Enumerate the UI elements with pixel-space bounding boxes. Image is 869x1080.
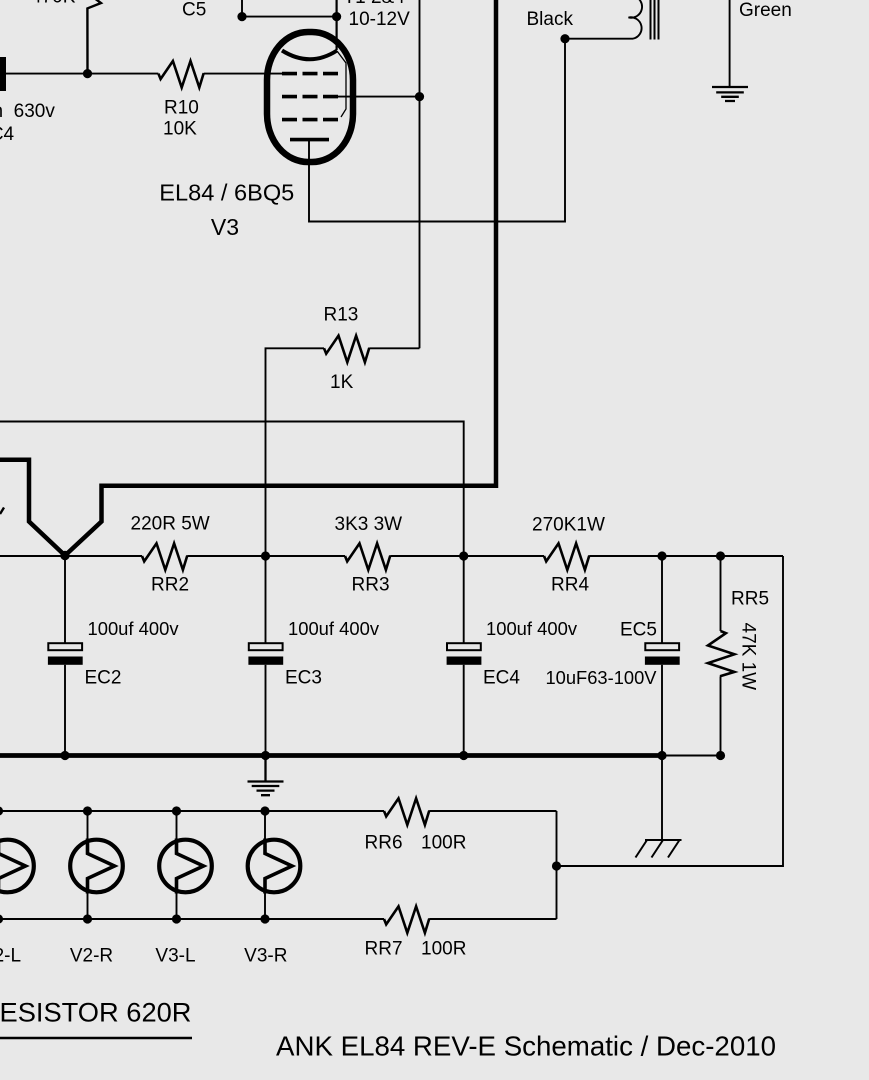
wire: B+ rail segment 4 [589,555,783,557]
svg-text:V3-R: V3-R [244,946,287,967]
svg-text:100uf 400v: 100uf 400v [288,618,380,639]
svg-text:100uf 400v: 100uf 400v [88,618,180,639]
svg-text:47K 1W: 47K 1W [738,623,759,691]
resistor R10 [158,61,203,88]
junction node C4/470K [83,69,92,78]
junction heater dots top [0,806,270,815]
wire: RR7 to output node [429,918,556,920]
label fragment at left edge [0,508,4,515]
svg-text:V3: V3 [211,214,239,240]
svg-text:RR7: RR7 [365,938,403,959]
svg-text:C4: C4 [0,124,15,145]
resistor R13 [324,336,369,363]
resistor RR7 [384,906,429,933]
junction RR5 top node [716,551,725,560]
junction RR5 ground [716,751,725,760]
svg-text:n 630v: n 630v [0,101,55,122]
svg-text:EC2: EC2 [85,668,122,689]
tube V3 internal lead [337,51,346,117]
ground rail (thick) [0,753,662,758]
thick B+ bus [65,0,496,556]
svg-text:470K: 470K [31,0,76,8]
tube V3 grid g1 [282,72,338,76]
svg-text:ESISTOR 620R: ESISTOR 620R [0,998,192,1028]
junction EC2 ground [60,751,69,760]
junction heater dots bottom [0,914,270,923]
thick feed from left (partial) [0,460,65,556]
svg-text:RR4: RR4 [551,575,589,596]
capacitor EC2 [48,556,83,756]
underline [0,1037,192,1040]
svg-text:V3-L: V3-L [155,946,195,967]
heater rail bottom [0,918,384,920]
wire: cathode to Black node [309,39,565,222]
wire: R13 right lead to B+ vertical [369,347,419,349]
svg-text:EC5: EC5 [620,620,657,641]
svg-text:270K1W: 270K1W [532,515,605,536]
wire: B+ rail segment 1 [0,555,142,557]
svg-text:1K: 1K [330,372,354,393]
wire: EC5 node to chassis ground [661,756,663,841]
svg-text:EC3: EC3 [285,668,322,689]
wire: C5 stub [241,0,243,17]
wire: Green to earth ground [729,0,731,87]
junction g2/B+ [415,92,424,101]
wire: g2 to B+ node [338,96,420,98]
resistor 470K (partial, cut at top) [86,0,101,74]
junction EC4 ground [459,751,468,760]
resistor RR6 [384,798,429,825]
svg-text:R13: R13 [324,305,359,326]
heater V3-R [248,811,301,919]
capacitor EC3 [248,556,283,756]
svg-text:220R 5W: 220R 5W [131,514,210,535]
svg-text:EC4: EC4 [483,668,520,689]
junction T1 node [332,12,341,21]
junction EC5 ground [657,751,666,760]
svg-text:R10: R10 [164,98,199,119]
svg-text:RR5: RR5 [731,589,769,610]
wire: B+ rail segment 3 [390,555,544,557]
wire: C4 to R10 [4,73,158,75]
wire: RR6/RR7 join vertical [556,811,558,919]
resistor RR5 [708,556,735,756]
capacitor C4 (partial plate at left edge) [0,57,6,91]
junction B+ V node [60,551,69,560]
ground rail thin extension [662,755,721,757]
resistor RR4 [544,543,589,570]
heater V2-R [70,811,123,919]
svg-text:100R: 100R [421,938,466,959]
transformer T1 winding [629,0,643,39]
wire: R10 to V3 grid [204,73,282,75]
capacitor EC5 [645,556,680,756]
svg-text:10-12V: 10-12V [349,9,411,30]
resistor RR3 [345,543,390,570]
svg-text:V2-R: V2-R [70,946,113,967]
wire: B+ rail segment 2 [187,555,345,557]
junction C5 node [237,12,246,21]
wire: rail right drop to output node [557,556,784,866]
svg-text:V2-L: V2-L [0,946,21,967]
svg-text:100uf 400v: 100uf 400v [486,618,578,639]
svg-text:RR6: RR6 [365,832,403,853]
heater V2-L (partial) [0,811,34,919]
capacitor EC4 [447,556,482,756]
tube V3 grid g2 [282,95,338,99]
heater rail top [0,810,384,812]
tube V3 cathode [290,138,329,142]
svg-text:Black: Black [527,9,574,30]
svg-text:T1 2&4: T1 2&4 [344,0,406,8]
wire: RR6 to output node [429,810,556,812]
earth ground (main) [248,756,284,796]
svg-text:10K: 10K [163,119,197,140]
svg-text:RR3: RR3 [352,575,390,596]
junction EC5 node [657,551,666,560]
junction EC3 node [261,551,270,560]
svg-text:EL84 / 6BQ5: EL84 / 6BQ5 [159,180,294,206]
chassis ground [636,840,682,858]
wire: C5 node to T1 node [242,16,337,18]
svg-text:3K3 3W: 3K3 3W [335,514,403,535]
tube V3 envelope [267,32,353,162]
svg-text:RR2: RR2 [151,575,189,596]
resistor RR2 [142,543,187,570]
svg-text:C5: C5 [182,0,206,21]
junction Black node [560,34,569,43]
heater V3-L [159,811,212,919]
tube V3 grid g3 [282,118,338,122]
svg-text:10uF63-100V: 10uF63-100V [546,667,658,688]
svg-text:ANK EL84 REV-E Schematic / Dec: ANK EL84 REV-E Schematic / Dec-2010 [276,1031,776,1062]
wire: Black node to T1 winding [565,38,633,40]
transformer T1 core [651,0,659,40]
wire: screen rail (y=421) [0,422,464,557]
wire: B+ vertical to R13 [419,0,421,348]
wire: R13 left lead down to EC3 node [266,348,325,556]
wire: plate to T1 node [336,0,338,50]
svg-text:100R: 100R [421,832,466,853]
tube V3 plate [282,51,337,60]
earth ground (Green) [712,87,748,101]
svg-text:Green: Green [739,0,792,21]
junction output node [552,861,561,870]
junction EC3 ground [261,751,270,760]
junction EC4 node [459,551,468,560]
